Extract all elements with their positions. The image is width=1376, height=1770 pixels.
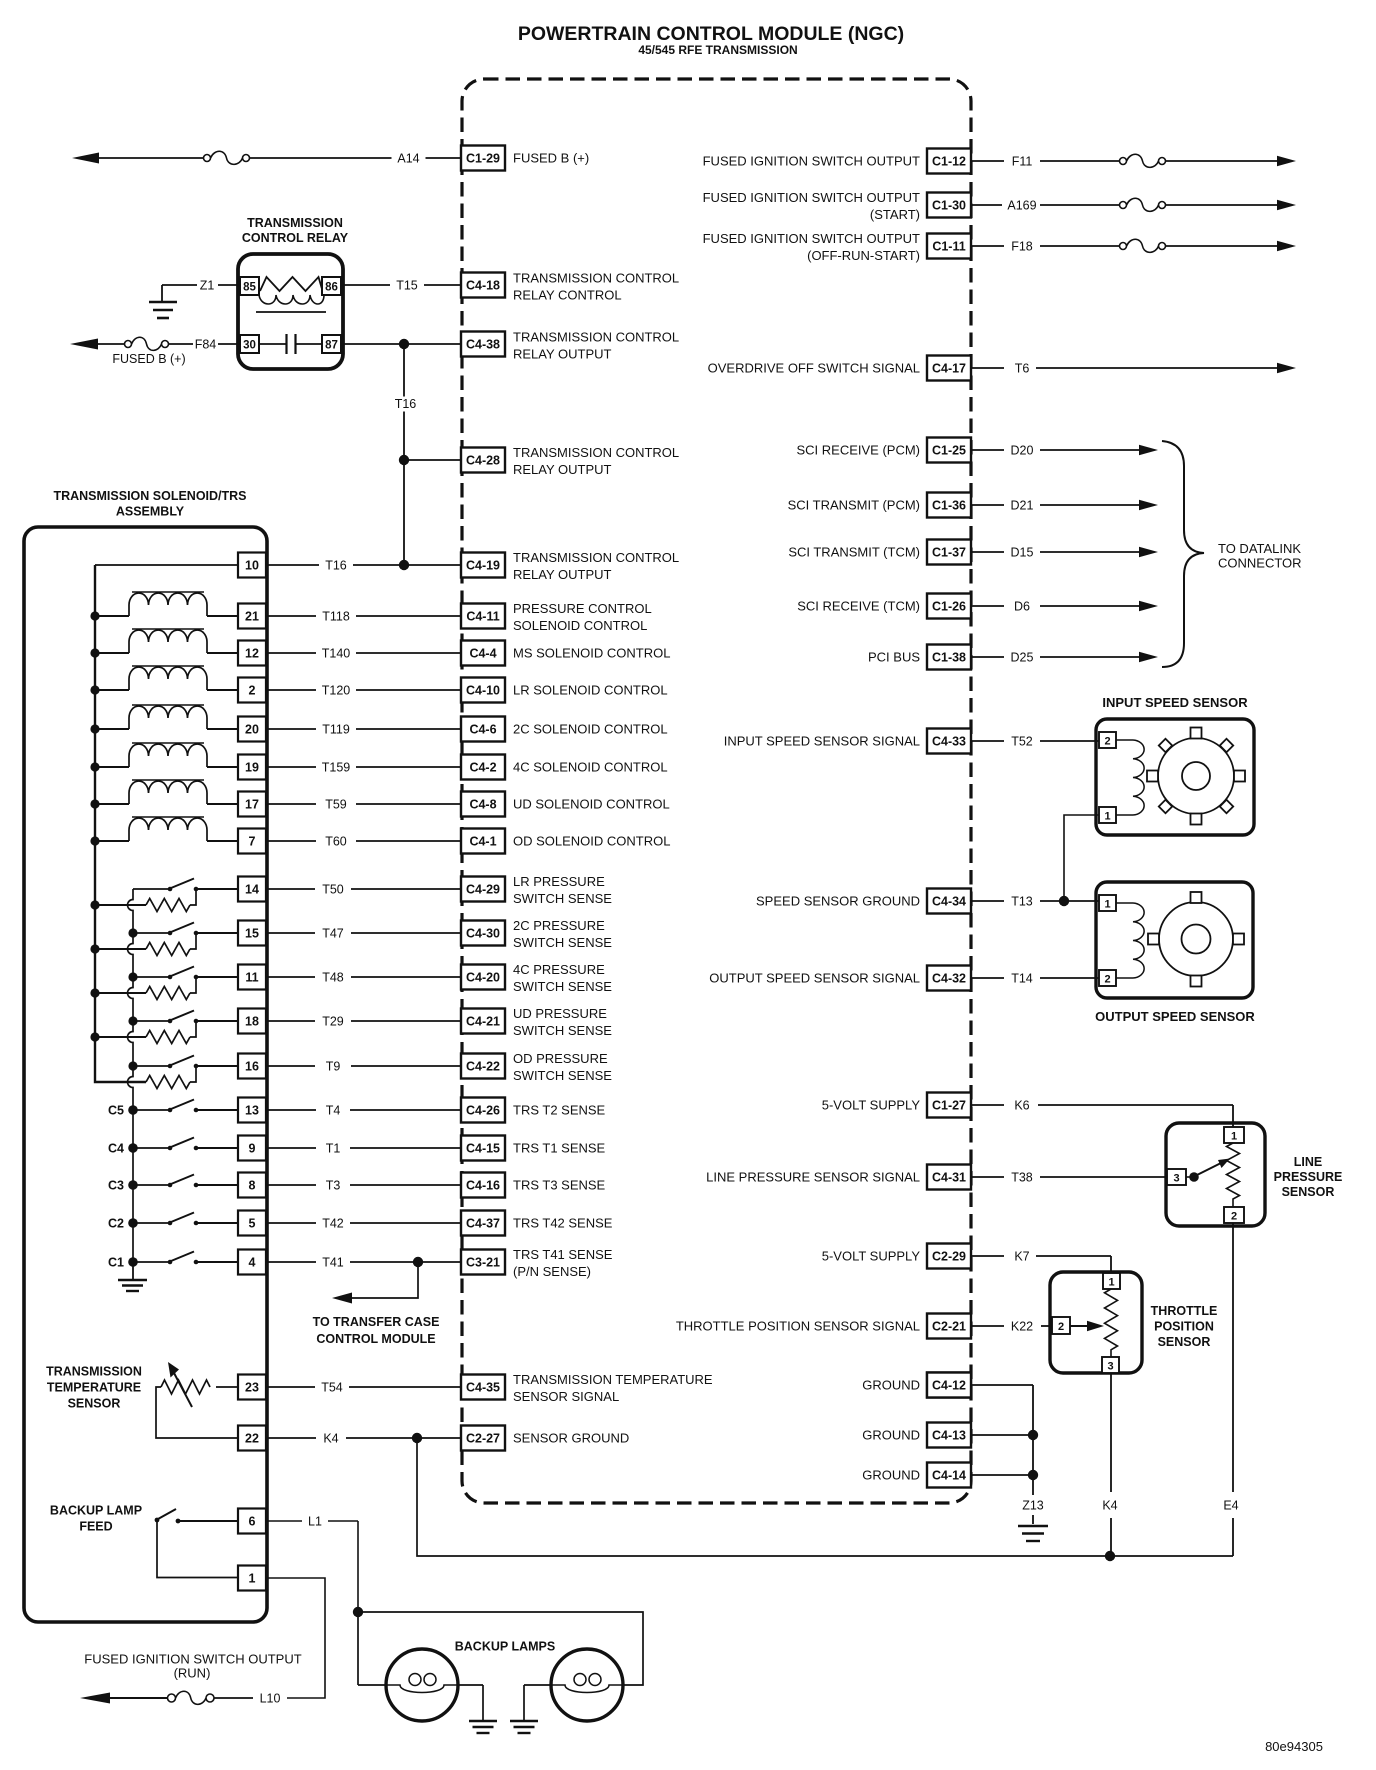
wire T41 branch to transfer case control module (352, 1262, 418, 1298)
pressure switch resistor R18 (146, 1031, 190, 1044)
relay contact (capacitor-style symbol between pins 30-87) (259, 343, 286, 345)
svg-text:T50: T50 (322, 883, 344, 897)
wire label A14 (392, 151, 426, 166)
pressure switch 15 (133, 932, 168, 934)
wire E4 line pressure sensor pin 2 down (1232, 1223, 1234, 1492)
svg-text:D21: D21 (1011, 499, 1034, 513)
svg-text:BACKUP LAMP: BACKUP LAMP (50, 1504, 142, 1518)
wire label T14 (1004, 971, 1040, 986)
svg-text:16: 16 (245, 1060, 259, 1074)
wire label T16 (upper) (390, 397, 422, 412)
wire T52 to input speed sensor pin 2 (1040, 740, 1099, 742)
node C2 (128, 1218, 138, 1228)
svg-text:D6: D6 (1014, 600, 1030, 614)
wire T60 pin 7 to C4-1 (266, 840, 461, 842)
connector C1-25 (927, 438, 971, 463)
svg-text:CONTROL RELAY: CONTROL RELAY (242, 231, 349, 245)
wire label T159 (316, 760, 356, 775)
svg-text:TRS T1 SENSE: TRS T1 SENSE (513, 1141, 606, 1156)
wire T3 pin 8 to C4-16 (266, 1184, 461, 1186)
fuse symbol A14 circuit (204, 155, 211, 162)
pin 8 (238, 1173, 266, 1198)
wire K6 from C1-27 (971, 1104, 1004, 1106)
connector C4-18 (461, 273, 505, 298)
svg-text:T3: T3 (326, 1179, 341, 1193)
wire L1 down to backup lamps (357, 1521, 359, 1612)
wire switch pole to pin 1 (157, 1521, 238, 1578)
svg-text:C1-29: C1-29 (466, 152, 500, 166)
svg-text:C4-18: C4-18 (466, 279, 500, 293)
wire L1 from pin 6 (266, 1520, 358, 1522)
wire D21 from C1-36 (971, 504, 1004, 506)
wire K6 to line pressure sensor pin 1 (1038, 1104, 1233, 1106)
svg-text:C1-26: C1-26 (932, 600, 966, 614)
svg-text:RELAY OUTPUT: RELAY OUTPUT (513, 462, 612, 477)
arrow D20 to datalink (1139, 445, 1158, 455)
svg-text:LINE PRESSURE SENSOR SIGNAL: LINE PRESSURE SENSOR SIGNAL (706, 1170, 920, 1185)
wire label T54 (315, 1380, 349, 1395)
junction node tap bus at switch 18 (128, 1016, 137, 1025)
svg-text:K22: K22 (1011, 1320, 1033, 1334)
connector C4-32 (927, 966, 971, 991)
svg-text:C4-10: C4-10 (466, 684, 500, 698)
wire label L1 (302, 1514, 328, 1529)
wire D20 from C1-25 (971, 449, 1004, 451)
fuse symbol L10 circuit (168, 1694, 176, 1702)
junction node bus at solenoid 21 (90, 611, 99, 620)
connector C4-34 (927, 889, 971, 914)
connector C1-11 (927, 234, 971, 259)
connector C4-12 (927, 1373, 971, 1398)
junction node bus at resistor row 18 (90, 1032, 99, 1041)
junction node bus at solenoid 20 (90, 724, 99, 733)
wire right lamp to ground (524, 1684, 551, 1686)
pin 19 (238, 755, 266, 780)
wire T47 pin 15 to C4-30 (266, 932, 461, 934)
svg-text:T59: T59 (325, 798, 347, 812)
svg-text:E4: E4 (1223, 1499, 1238, 1513)
svg-text:FUSED IGNITION SWITCH OUTPUT: FUSED IGNITION SWITCH OUTPUT (703, 190, 920, 205)
wire label T15 (390, 278, 424, 293)
svg-text:14: 14 (245, 883, 259, 897)
svg-text:TRANSMISSION CONTROL: TRANSMISSION CONTROL (513, 271, 679, 286)
junction node bus at resistor row 15 (90, 944, 99, 953)
svg-text:C1-11: C1-11 (932, 240, 965, 254)
output speed sensor tone wheel (1159, 902, 1233, 976)
svg-text:80e94305: 80e94305 (1265, 1739, 1323, 1754)
connector C1-27 (927, 1093, 971, 1118)
svg-text:T118: T118 (322, 610, 350, 624)
fuse symbol on F11 circuit (1120, 158, 1127, 165)
svg-text:TRANSMISSION: TRANSMISSION (247, 216, 343, 230)
solenoid coil L7 (95, 840, 129, 842)
svg-text:PRESSURE CONTROL: PRESSURE CONTROL (513, 601, 652, 616)
svg-text:SCI TRANSMIT (PCM): SCI TRANSMIT (PCM) (788, 498, 920, 513)
svg-text:FUSED B (+): FUSED B (+) (513, 151, 589, 166)
svg-text:1: 1 (249, 1572, 256, 1586)
wire T29 pin 18 to C4-21 (266, 1020, 461, 1022)
svg-text:POWERTRAIN CONTROL MODULE (NGC: POWERTRAIN CONTROL MODULE (NGC) (518, 23, 904, 45)
svg-text:C4-16: C4-16 (466, 1179, 500, 1193)
connector C1-30 (927, 193, 971, 218)
svg-text:K6: K6 (1014, 1099, 1029, 1113)
arrow fused B(+) feed (70, 339, 98, 350)
svg-text:L1: L1 (308, 1515, 322, 1529)
throttle position sensor pin 2 (1052, 1317, 1070, 1334)
svg-text:T41: T41 (322, 1256, 344, 1270)
svg-text:21: 21 (245, 610, 259, 624)
svg-text:INPUT SPEED SENSOR SIGNAL: INPUT SPEED SENSOR SIGNAL (724, 734, 920, 749)
pin 1 (238, 1566, 266, 1591)
wire label K4 (lower) (1097, 1498, 1123, 1513)
connector C4-30 (461, 921, 505, 946)
svg-text:SENSOR: SENSOR (1282, 1185, 1335, 1199)
junction node ground C4-14 (1028, 1470, 1038, 1480)
wire bus to pressure resistor 11 (95, 992, 146, 994)
pressure switch 14 (133, 888, 168, 890)
wire label D15 (1004, 545, 1040, 560)
arrow to transfer case control module (332, 1293, 352, 1304)
svg-text:K4: K4 (1102, 1499, 1117, 1513)
svg-text:GROUND: GROUND (862, 1428, 920, 1443)
connector C4-12 (927, 1373, 971, 1398)
svg-text:TRS T42 SENSE: TRS T42 SENSE (513, 1216, 613, 1231)
wire pin 10 to solenoid supply bus (95, 564, 238, 566)
svg-text:T38: T38 (1011, 1171, 1033, 1185)
wire C4-13 ground (971, 1434, 1033, 1436)
wire label T16 (lower) (319, 558, 353, 573)
backup lamp right (551, 1649, 623, 1721)
svg-text:F11: F11 (1012, 155, 1033, 169)
svg-text:OVERDRIVE OFF SWITCH SIGNAL: OVERDRIVE OFF SWITCH SIGNAL (708, 361, 920, 376)
relay pin 86 (322, 277, 341, 295)
pin 9 (238, 1136, 266, 1161)
wire bus to pressure resistor 18 (95, 1036, 146, 1038)
svg-text:C2-29: C2-29 (932, 1250, 966, 1264)
svg-text:12: 12 (245, 647, 259, 661)
wire C4-14 ground (971, 1474, 1033, 1476)
wire A169 from C1-30 (971, 204, 1004, 206)
TRS switch C3 (133, 1184, 168, 1186)
connector C4-11 (461, 604, 505, 629)
wire label T38 (1004, 1170, 1040, 1185)
throttle position sensor wiper (1070, 1325, 1088, 1327)
svg-text:2C SOLENOID CONTROL: 2C SOLENOID CONTROL (513, 722, 668, 737)
svg-text:1: 1 (1231, 1131, 1237, 1143)
wire T50 pin 14 to C4-29 (266, 888, 461, 890)
backup lamp feed switch (155, 1518, 160, 1523)
svg-text:2: 2 (1058, 1321, 1064, 1333)
connector C1-38 (927, 645, 971, 670)
wire F18 to arrow (1166, 245, 1278, 247)
pressure switch 18 (133, 1020, 168, 1022)
wire label F11 (1004, 154, 1040, 169)
svg-text:(OFF-RUN-START): (OFF-RUN-START) (807, 248, 920, 263)
svg-text:T42: T42 (322, 1217, 344, 1231)
svg-text:OUTPUT SPEED SENSOR SIGNAL: OUTPUT SPEED SENSOR SIGNAL (709, 971, 920, 986)
svg-text:C4-30: C4-30 (466, 927, 500, 941)
pin 10 (238, 553, 266, 578)
line pressure sensor wiper (1186, 1176, 1192, 1178)
pin 13 (238, 1098, 266, 1123)
solenoid coil L17 (95, 803, 129, 805)
wire D25 from C1-38 (971, 656, 1004, 658)
connector C4-29 (461, 877, 505, 902)
svg-text:MS SOLENOID CONTROL: MS SOLENOID CONTROL (513, 646, 670, 661)
connector C4-14 (927, 1463, 971, 1488)
wire F11 to arrow (1166, 160, 1278, 162)
svg-text:GROUND: GROUND (862, 1468, 920, 1483)
svg-text:C4-38: C4-38 (466, 338, 500, 352)
connector C2-21 (927, 1314, 971, 1339)
wire K4 throttle position sensor pin 3 down (1110, 1373, 1112, 1492)
fuse symbol on F18 circuit (1120, 243, 1127, 250)
arrow F18 (1277, 241, 1296, 251)
wire label T118 (316, 609, 356, 624)
line pressure sensor body (1166, 1123, 1265, 1226)
arrow fused ignition switch output (RUN) (110, 1697, 168, 1699)
svg-text:Z1: Z1 (200, 279, 215, 293)
relay pin 87 (322, 335, 341, 353)
pressure switch 11 (133, 976, 168, 978)
svg-text:T14: T14 (1011, 972, 1033, 986)
svg-text:8: 8 (249, 1179, 256, 1193)
fuse symbol on A169 circuit (1120, 202, 1127, 209)
wire label T9 (315, 1059, 351, 1074)
wire left lamp to ground (458, 1684, 483, 1686)
svg-text:C4-1: C4-1 (469, 835, 496, 849)
wire label D6 (1008, 599, 1036, 614)
svg-text:TO DATALINK: TO DATALINK (1218, 541, 1301, 556)
connector C4-31 (927, 1165, 971, 1190)
svg-text:20: 20 (245, 723, 259, 737)
wire A14 to fused B(+) (99, 157, 203, 159)
svg-text:C4-11: C4-11 (466, 610, 499, 624)
wire T14 from C4-32 (971, 977, 1004, 979)
svg-text:LINE: LINE (1294, 1155, 1322, 1169)
svg-text:19: 19 (245, 761, 259, 775)
junction node bus at solenoid 7 (90, 836, 99, 845)
wire to C4-28 (404, 459, 461, 461)
wire T4 pin 13 to C4-26 (266, 1109, 461, 1111)
pin 15 (238, 921, 266, 946)
svg-text:C4-8: C4-8 (469, 798, 496, 812)
svg-text:FEED: FEED (79, 1520, 112, 1534)
solenoid supply bus (left vertical) (95, 565, 146, 1082)
svg-text:OD PRESSURE: OD PRESSURE (513, 1051, 608, 1066)
svg-text:FUSED IGNITION SWITCH OUTPUT: FUSED IGNITION SWITCH OUTPUT (84, 1652, 301, 1667)
wire D15 from C1-37 (971, 551, 1004, 553)
svg-text:PRESSURE: PRESSURE (1274, 1170, 1343, 1184)
wire label T48 (315, 970, 351, 985)
svg-text:(RUN): (RUN) (174, 1666, 211, 1681)
TRS switch C2 (133, 1222, 168, 1224)
svg-text:C4-13: C4-13 (932, 1429, 966, 1443)
connector C4-22 (461, 1054, 505, 1079)
svg-text:SENSOR: SENSOR (1158, 1335, 1211, 1349)
throttle position sensor resistive element (1105, 1289, 1118, 1357)
wire T120 pin 2 to C4-10 (266, 689, 461, 691)
svg-text:TRANSMISSION TEMPERATURE: TRANSMISSION TEMPERATURE (513, 1372, 713, 1387)
svg-text:10: 10 (245, 559, 259, 573)
connector C4-19 (461, 553, 505, 578)
svg-text:2: 2 (1104, 974, 1110, 986)
svg-text:TO TRANSFER CASE: TO TRANSFER CASE (313, 1315, 440, 1329)
svg-text:C1-27: C1-27 (932, 1099, 966, 1113)
svg-text:C5: C5 (108, 1104, 124, 1118)
svg-text:TRS T41 SENSE: TRS T41 SENSE (513, 1247, 613, 1262)
pin 23 (238, 1375, 266, 1400)
wire T59 pin 17 to C4-8 (266, 803, 461, 805)
svg-text:1: 1 (1108, 1277, 1114, 1289)
node C3 (128, 1180, 138, 1190)
svg-text:C4-21: C4-21 (466, 1015, 500, 1029)
junction node bus at resistor row 14 (90, 900, 99, 909)
svg-text:CONTROL MODULE: CONTROL MODULE (316, 1332, 435, 1346)
svg-text:T47: T47 (322, 927, 344, 941)
wire T16 vertical relay output bus (403, 344, 405, 565)
svg-text:T60: T60 (325, 835, 347, 849)
line pressure sensor pin 2 (1224, 1207, 1244, 1223)
wire label F18 (1004, 239, 1040, 254)
svg-text:TRANSMISSION CONTROL: TRANSMISSION CONTROL (513, 550, 679, 565)
brace to datalink connector (1162, 441, 1204, 667)
svg-text:6: 6 (249, 1515, 256, 1529)
wire T41 pin 4 to C3-21 (266, 1261, 461, 1263)
wire label T41 (316, 1255, 350, 1270)
svg-text:C4-19: C4-19 (466, 559, 500, 573)
svg-text:SWITCH SENSE: SWITCH SENSE (513, 979, 612, 994)
svg-text:F18: F18 (1011, 240, 1033, 254)
svg-text:D20: D20 (1011, 444, 1034, 458)
svg-text:A14: A14 (397, 152, 419, 166)
pin 2 (238, 678, 266, 703)
wire label T13 (1004, 894, 1040, 909)
pin 6 (238, 1509, 266, 1534)
wire L1 junction down to left lamp (357, 1612, 359, 1685)
svg-text:22: 22 (245, 1432, 259, 1446)
junction node bus at solenoid 17 (90, 799, 99, 808)
svg-text:C4-26: C4-26 (466, 1104, 500, 1118)
arrow D25 to datalink (1139, 652, 1158, 662)
svg-text:C4-34: C4-34 (932, 895, 966, 909)
pressure switch resistor R16 (146, 1076, 190, 1089)
svg-text:4C SOLENOID CONTROL: 4C SOLENOID CONTROL (513, 760, 668, 775)
svg-text:SENSOR: SENSOR (68, 1397, 121, 1411)
pressure switch resistor R14 (146, 899, 190, 912)
svg-text:15: 15 (245, 927, 259, 941)
connector C2-29 (927, 1244, 971, 1269)
svg-text:TEMPERATURE: TEMPERATURE (47, 1381, 141, 1395)
svg-text:C4-33: C4-33 (932, 735, 966, 749)
output speed sensor body (1096, 882, 1253, 998)
wire T119 pin 20 to C4-6 (266, 728, 461, 730)
svg-text:C2-27: C2-27 (466, 1432, 500, 1446)
svg-text:C4-22: C4-22 (466, 1060, 500, 1074)
svg-text:C4-15: C4-15 (466, 1142, 500, 1156)
svg-text:C4-31: C4-31 (932, 1171, 966, 1185)
connector C3-21 (461, 1250, 505, 1275)
svg-text:LR SOLENOID CONTROL: LR SOLENOID CONTROL (513, 683, 668, 698)
svg-text:C4: C4 (108, 1142, 124, 1156)
svg-text:SOLENOID CONTROL: SOLENOID CONTROL (513, 618, 647, 633)
wire speed sensor ground to input sensor pin 1 (1064, 815, 1099, 901)
wire label L10 (254, 1691, 286, 1706)
svg-text:T119: T119 (322, 723, 350, 737)
junction node bus at solenoid 2 (90, 685, 99, 694)
svg-text:85: 85 (243, 282, 256, 294)
wire L10 to fuse (214, 1697, 253, 1699)
svg-text:SCI RECEIVE (TCM): SCI RECEIVE (TCM) (797, 599, 920, 614)
svg-text:T54: T54 (321, 1381, 343, 1395)
connector C4-1 (461, 829, 505, 854)
pin 18 (238, 1009, 266, 1034)
wire T159 pin 19 to C4-2 (266, 766, 461, 768)
pin 20 (238, 717, 266, 742)
wire bus to pressure resistor 14 (95, 904, 146, 906)
connector C4-2 (461, 755, 505, 780)
wire T48 pin 11 to C4-20 (266, 976, 461, 978)
wire F11 from C1-12 (971, 160, 1004, 162)
pin 4 (238, 1250, 266, 1275)
svg-text:POSITION: POSITION (1154, 1320, 1214, 1334)
svg-text:TRS T3 SENSE: TRS T3 SENSE (513, 1178, 606, 1193)
wire label D25 (1004, 650, 1040, 665)
svg-text:T48: T48 (322, 971, 344, 985)
svg-text:(START): (START) (870, 207, 920, 222)
wire label T52 (1004, 734, 1040, 749)
svg-text:C4-6: C4-6 (469, 723, 496, 737)
svg-text:18: 18 (245, 1015, 259, 1029)
input speed sensor pin 1 (1099, 807, 1116, 823)
svg-text:D25: D25 (1011, 651, 1034, 665)
svg-text:A169: A169 (1007, 199, 1036, 213)
pin 7 (238, 829, 266, 854)
pin 17 (238, 792, 266, 817)
wire T1 pin 9 to C4-15 (266, 1147, 461, 1149)
svg-text:C4-28: C4-28 (466, 454, 500, 468)
input speed sensor coil (1116, 739, 1133, 741)
junction node tap bus at switch 11 (128, 972, 137, 981)
svg-text:C4-12: C4-12 (932, 1379, 966, 1393)
svg-text:K4: K4 (323, 1432, 338, 1446)
transmission temperature sensor (variable resistor) (161, 1380, 210, 1394)
wire label A169 (1002, 198, 1042, 213)
wire K7 to throttle position sensor pin 1 (1036, 1255, 1111, 1257)
svg-text:FUSED IGNITION SWITCH OUTPUT: FUSED IGNITION SWITCH OUTPUT (703, 154, 920, 169)
backup lamp left (386, 1649, 458, 1721)
connector C4-37 (461, 1211, 505, 1236)
svg-text:86: 86 (325, 282, 338, 294)
wire label T140 (316, 646, 356, 661)
svg-text:5: 5 (249, 1217, 256, 1231)
svg-text:SWITCH SENSE: SWITCH SENSE (513, 935, 612, 950)
wire label T29 (315, 1014, 351, 1029)
svg-text:C4-29: C4-29 (466, 883, 500, 897)
svg-text:C1-37: C1-37 (932, 546, 966, 560)
wire label T3 (316, 1178, 350, 1193)
svg-text:TRANSMISSION CONTROL: TRANSMISSION CONTROL (513, 445, 679, 460)
svg-text:ASSEMBLY: ASSEMBLY (116, 505, 185, 519)
svg-text:SWITCH SENSE: SWITCH SENSE (513, 891, 612, 906)
connector C4-38 (461, 332, 505, 357)
wire A169 to arrow (1166, 204, 1278, 206)
solenoid coil L12 (95, 652, 129, 654)
junction node tap bus at switch 15 (128, 928, 137, 937)
svg-text:TRANSMISSION CONTROL: TRANSMISSION CONTROL (513, 330, 679, 345)
svg-text:4: 4 (249, 1256, 256, 1270)
svg-text:C2-21: C2-21 (932, 1320, 966, 1334)
